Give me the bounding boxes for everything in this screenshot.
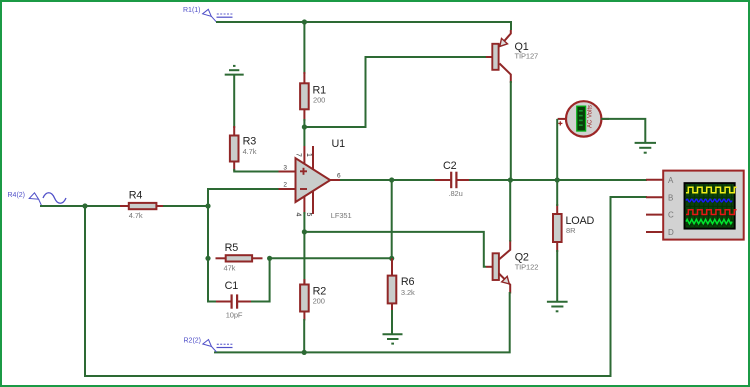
svg-text:AC Volts: AC Volts [588, 105, 594, 128]
svg-text:U1: U1 [332, 138, 346, 150]
svg-text:1: 1 [305, 153, 312, 157]
svg-text:47k: 47k [224, 264, 236, 273]
svg-text:8R: 8R [566, 226, 576, 235]
svg-text:LF351: LF351 [331, 211, 352, 220]
node junction left drop on R4 wire [82, 203, 87, 208]
wire feedback column and op-amp pin 2 [208, 189, 279, 302]
wire R2 bottom lead [303, 319, 305, 352]
node junction R5 right [267, 256, 272, 261]
svg-text:R5: R5 [225, 242, 239, 254]
svg-text:3: 3 [283, 164, 287, 171]
scope trace channel C red [686, 210, 737, 215]
svg-text:TIP122: TIP122 [515, 263, 539, 272]
svg-text:.82u: .82u [449, 189, 463, 198]
svg-text:10pF: 10pF [226, 311, 243, 320]
svg-text:200: 200 [313, 96, 325, 105]
resistor R4 [120, 190, 165, 221]
wire LOAD to ground [556, 250, 558, 302]
op-amp U1 [279, 138, 352, 220]
node junction R4 right / feedback column [205, 203, 210, 208]
node junction below R1 [302, 124, 307, 129]
svg-text:R1(1): R1(1) [183, 7, 201, 14]
wire voltmeter down to rail [556, 119, 558, 180]
wire op-amp output rail [340, 179, 436, 181]
transistor Q2 TIP122 [486, 240, 538, 294]
wire R3 to op-amp pin 3 [234, 169, 278, 172]
svg-text:200: 200 [313, 297, 325, 306]
resistor R6 [388, 258, 415, 312]
svg-text:6: 6 [337, 173, 341, 180]
svg-text:5: 5 [305, 213, 312, 217]
ground under LOAD [547, 302, 568, 312]
svg-text:C: C [668, 211, 674, 220]
terminal R1(1) [183, 7, 234, 22]
wire R2 bottom rail and Q2 emitter [214, 292, 510, 352]
resistor R3 [230, 126, 257, 171]
svg-text:B: B [668, 194, 673, 203]
svg-text:R4: R4 [129, 190, 143, 202]
node junction Q2 base tap [302, 229, 307, 234]
wire Q1 collector down to rail [510, 81, 512, 180]
node junction R2 bottom [302, 350, 307, 355]
wire LOAD column [556, 180, 558, 206]
terminal R4(2) with sine generator mark [8, 192, 67, 206]
node junction feedback tap on rail [389, 177, 394, 182]
svg-text:D: D [668, 228, 674, 237]
wire Q2 base path [304, 232, 486, 267]
wire junction below R1 down to op-amp pin 7 [303, 127, 305, 146]
node junction rail / Q1 Q2 column [508, 177, 513, 182]
scope trace channel A yellow [686, 187, 737, 193]
svg-text:2: 2 [283, 182, 287, 189]
svg-text:TIP127: TIP127 [515, 51, 539, 60]
wire R1 bottom to Q1 base path [304, 57, 486, 127]
wire R5 right to R6 node [270, 257, 392, 259]
resistor R5 [216, 242, 263, 273]
svg-text:R1: R1 [313, 84, 327, 96]
wire left drop to bottom rail to scope input B [85, 197, 647, 376]
ground (power rail up symbol) top-left [225, 66, 244, 75]
wire R6 to ground [391, 310, 393, 334]
resistor R1 [300, 72, 326, 121]
wire R4 to feedback column [163, 205, 208, 207]
svg-text:4: 4 [295, 213, 302, 217]
node junction R1 top on rail [302, 19, 307, 24]
ground under R6 [383, 334, 403, 343]
svg-text:C2: C2 [443, 160, 457, 172]
wire terminal R4(2) to R4 [40, 205, 122, 207]
scope trace channel B blue [686, 199, 732, 202]
svg-text:4.7k: 4.7k [129, 211, 143, 220]
wire C1 right up to R5 right node [251, 258, 270, 301]
oscilloscope [646, 171, 744, 240]
capacitor C1 [216, 280, 253, 320]
ground right of voltmeter [635, 143, 656, 153]
svg-text:7: 7 [295, 153, 302, 157]
wire ground to R3 [233, 75, 235, 128]
svg-text:R2(2): R2(2) [184, 338, 202, 345]
resistor R2 [300, 279, 326, 321]
svg-text:3.2k: 3.2k [401, 288, 415, 297]
svg-text:R3: R3 [243, 136, 257, 148]
svg-text:R6: R6 [401, 276, 415, 288]
wire voltmeter right to ground [601, 119, 645, 143]
svg-text:A: A [668, 176, 674, 185]
node junction rail / voltmeter column [555, 177, 560, 182]
capacitor C2 [435, 160, 471, 198]
scope trace channel D green [686, 219, 732, 223]
wire C2 to scope input A [469, 179, 647, 181]
terminal R2(2) [184, 338, 234, 353]
svg-text:R4(2): R4(2) [8, 192, 26, 199]
wire top rail from terminal R1(1) to Q1 emitter corner [216, 22, 511, 30]
wire op-amp pin4 column down to R2 [303, 212, 305, 285]
svg-text:4.7k: 4.7k [243, 147, 257, 156]
wire Q2 collector up to rail [509, 180, 511, 242]
svg-text:C1: C1 [225, 280, 239, 292]
node junction R5 left [205, 256, 210, 261]
voltmeter AC Volts [558, 101, 609, 136]
transistor Q1 TIP127 [486, 30, 538, 83]
wire from rail down to R1 [303, 22, 305, 74]
resistor LOAD [553, 204, 595, 252]
wire feedback tap down to R6 node [391, 180, 393, 258]
node junction R6 top [389, 256, 394, 261]
